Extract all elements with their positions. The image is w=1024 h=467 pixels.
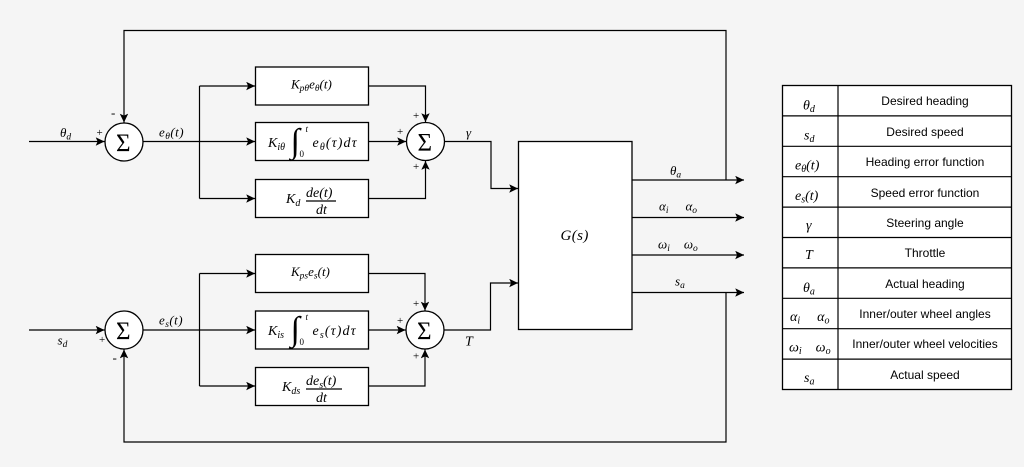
wire feedback bottom	[124, 293, 726, 443]
legend row 10 text	[890, 368, 959, 382]
svg-text:+: +	[397, 126, 403, 138]
legend table grid	[783, 86, 1012, 390]
wire into box A	[200, 85, 256, 87]
svg-text:T: T	[465, 335, 474, 350]
svg-text:es(τ)dτ: es(τ)dτ	[313, 324, 357, 341]
block Ki-theta integral	[256, 123, 369, 161]
svg-text:dt: dt	[316, 391, 328, 406]
svg-text:Σ: Σ	[116, 130, 131, 157]
label plus S2 left	[397, 126, 403, 138]
svg-text:Σ: Σ	[417, 318, 432, 345]
svg-text:G(s): G(s)	[561, 228, 589, 244]
svg-text:Steering angle: Steering angle	[886, 216, 964, 230]
block Kp-theta	[256, 67, 369, 105]
svg-text:+: +	[97, 127, 103, 139]
svg-text:Kpθeθ(t): Kpθeθ(t)	[290, 77, 332, 95]
legend row 1 symbol theta_d	[803, 99, 816, 116]
svg-text:eθ(t): eθ(t)	[159, 125, 184, 143]
wire box B to S2 left	[369, 141, 407, 143]
wire S3 output to box E	[143, 329, 255, 331]
svg-text:γ: γ	[466, 125, 472, 140]
legend row 5 text	[886, 216, 964, 230]
legend row 2 symbol s_d	[804, 129, 815, 146]
svg-text:Inner/outer wheel angles: Inner/outer wheel angles	[859, 307, 990, 321]
wire into box C	[200, 198, 256, 200]
svg-text:-: -	[111, 105, 115, 120]
wire s_a output	[632, 292, 744, 294]
legend row 4 symbol e_s(t)	[795, 189, 819, 206]
svg-text:+: +	[413, 351, 419, 363]
svg-text:0: 0	[300, 337, 305, 347]
wire box E to S4 left	[369, 329, 406, 331]
wire box A to S2 top	[369, 86, 426, 122]
label Ki-theta integral e_theta(tau)dtau	[267, 123, 358, 162]
legend row 10 symbol s_a	[804, 371, 814, 388]
wire theta_a output	[632, 179, 744, 181]
svg-text:Σ: Σ	[418, 130, 433, 157]
legend row 6 symbol T	[805, 248, 814, 263]
label gamma	[466, 125, 472, 140]
legend row 6 text	[905, 246, 946, 260]
svg-text:Actual heading: Actual heading	[885, 277, 964, 291]
legend table frame	[783, 86, 1012, 390]
svg-text:+: +	[99, 334, 105, 346]
svg-text:γ: γ	[806, 219, 812, 234]
svg-text:es(t): es(t)	[795, 189, 819, 206]
block Kps	[256, 255, 369, 293]
label e_theta(t)	[159, 125, 184, 143]
svg-text:-: -	[113, 350, 117, 365]
svg-text:de(t): de(t)	[306, 186, 333, 201]
label Kds de_s(t)/dt	[281, 374, 342, 406]
legend row 9 symbol omega_i omega_o	[789, 340, 831, 357]
label plus S4 left	[397, 315, 403, 327]
label alpha_i alpha_o	[659, 199, 697, 217]
svg-text:0: 0	[300, 149, 305, 159]
svg-text:Actual speed: Actual speed	[890, 368, 959, 382]
label Kis integral e_s(tau)dtau	[267, 311, 357, 350]
wire S1 output to branch and box B	[143, 141, 255, 143]
summing junction S2	[407, 123, 445, 161]
svg-text:Throttle: Throttle	[905, 246, 946, 260]
svg-text:Heading error function: Heading error function	[866, 155, 985, 169]
wire box F to S4 bottom	[369, 350, 426, 387]
legend row 8 text	[859, 307, 990, 321]
label plus S4 bottom	[413, 351, 419, 363]
label s_d	[58, 333, 68, 351]
svg-text:eθ(τ)dτ: eθ(τ)dτ	[313, 136, 358, 153]
svg-text:Inner/outer wheel velocities: Inner/outer wheel velocities	[852, 337, 997, 351]
label minus sum1 top	[111, 105, 115, 120]
wire box C to S2 bottom	[369, 161, 426, 199]
legend row 9 text	[852, 337, 997, 351]
label e_s(t)	[159, 313, 183, 331]
wire alpha output	[632, 217, 744, 219]
label minus sum3 bottom	[113, 350, 117, 365]
label theta_d	[60, 125, 71, 143]
label Kps e_s(t)	[290, 264, 330, 282]
wire branch vertical top	[199, 86, 201, 199]
wire s_d input	[29, 329, 105, 331]
svg-text:Desired heading: Desired heading	[881, 94, 968, 108]
svg-text:T: T	[805, 248, 814, 263]
label G(s)	[561, 228, 589, 244]
svg-text:+: +	[413, 110, 419, 122]
wire T from S4 to G(s)	[444, 283, 518, 330]
block Kis integral	[256, 311, 369, 349]
block Kds derivative	[256, 368, 369, 406]
block Kd derivative	[256, 180, 369, 218]
svg-text:Σ: Σ	[116, 318, 131, 345]
label plus sum1 left	[97, 127, 103, 139]
label plus S2 top	[413, 110, 419, 122]
svg-text:+: +	[413, 161, 419, 173]
label plus S2 bottom	[413, 161, 419, 173]
label omega_i omega_o	[658, 237, 698, 255]
legend row 8 symbol alpha_i alpha_o	[790, 310, 830, 327]
legend row 3 symbol e_theta(t)	[795, 159, 820, 176]
wire gamma from S2 to G(s)	[445, 142, 519, 189]
wire into box D	[200, 273, 256, 275]
svg-text:+: +	[413, 298, 419, 310]
svg-text:dt: dt	[316, 203, 328, 218]
legend row 4 text	[871, 186, 980, 200]
wire box D to S4 top	[369, 274, 426, 311]
legend row 3 text	[866, 155, 985, 169]
block G(s)	[519, 142, 633, 330]
summing junction S3	[105, 311, 143, 349]
wire omega output	[632, 254, 744, 256]
legend row 1 text	[881, 94, 968, 108]
svg-text:eθ(t): eθ(t)	[795, 159, 820, 176]
legend row 7 symbol theta_a	[803, 281, 815, 298]
wire feedback top	[124, 31, 726, 181]
label plus S4 top	[413, 298, 419, 310]
legend row 7 text	[885, 277, 964, 291]
svg-text:Speed error function: Speed error function	[871, 186, 980, 200]
wire theta_d input	[29, 141, 105, 143]
summing junction S4	[406, 311, 444, 349]
svg-text:Desired speed: Desired speed	[886, 125, 963, 139]
legend row 5 symbol gamma	[806, 219, 812, 234]
label T	[465, 335, 474, 350]
label s_a	[675, 274, 685, 292]
svg-text:Kpses(t): Kpses(t)	[290, 264, 330, 282]
wire branch vertical bottom	[199, 274, 201, 387]
svg-text:es(t): es(t)	[159, 313, 183, 331]
label theta_a	[670, 163, 681, 181]
summing junction S1	[105, 123, 143, 161]
svg-text:+: +	[397, 315, 403, 327]
label plus sum3 left	[99, 334, 105, 346]
label Kp-theta e_theta(t)	[290, 77, 332, 95]
wire into box F	[200, 385, 256, 387]
legend row 2 text	[886, 125, 963, 139]
label Kd de(t)/dt	[285, 186, 336, 218]
